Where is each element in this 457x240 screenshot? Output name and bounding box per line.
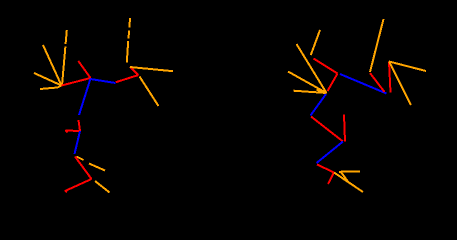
bond red RN-b bbox=[370, 73, 385, 92]
bond N8'-C9' red bbox=[317, 165, 334, 173]
bond C9 orange arm lower-right bbox=[95, 181, 110, 193]
bond H-C1 horizontal L2 bbox=[40, 86, 62, 90]
bond H spoke S1 bbox=[311, 30, 320, 55]
bond C4-O5 red bbox=[130, 67, 139, 75]
bond N8 orange arm (outer) bbox=[89, 164, 105, 171]
bond N2'-C6' blue descending bbox=[311, 94, 327, 116]
bond O5 vertical V2 orange (top) bbox=[128, 18, 131, 28]
bond O7'-N8' blue bbox=[317, 142, 344, 164]
bond C6-O7 red short bbox=[79, 120, 81, 131]
bond H-C1 vertical V1 (upper part) bbox=[66, 30, 67, 44]
bond C3-C4 red bbox=[116, 75, 139, 82]
tip hook of O7 arm bbox=[66, 130, 68, 133]
bond C4 lower arm orange bbox=[140, 77, 159, 107]
bond H-C1 diagonal bbox=[43, 45, 62, 86]
bond O5' right arm orange bbox=[389, 62, 426, 72]
bond C6'-O7' red diagonal bbox=[311, 117, 343, 142]
double stroke detail of F3 bbox=[317, 90, 323, 92]
bond red vertical C4'-O5' bbox=[389, 62, 391, 93]
bond O-C blue long bbox=[340, 74, 387, 94]
bond N2-C3 blue bbox=[91, 79, 116, 83]
bond N8 orange arm (inner) bbox=[77, 157, 84, 161]
bond H-C1 upper-left L1 bbox=[34, 73, 62, 86]
bond H-C1' F2 bbox=[288, 72, 327, 94]
bond O7' red vertical arm bbox=[344, 115, 345, 142]
bond Na-O red upper bbox=[314, 59, 338, 74]
bond O5 vertical V2 orange (middle) bbox=[128, 31, 131, 39]
bond C9' red arm bbox=[328, 173, 334, 185]
bond H-C1 vertical V1 (lower part) bbox=[62, 47, 65, 86]
bond H-C1' long diagonal bbox=[297, 44, 327, 93]
bond O5 vertical V2 orange (bottom) bbox=[127, 41, 128, 63]
bond N2-C6 blue descending bbox=[79, 79, 91, 116]
bond C1-N2 red bbox=[62, 78, 91, 86]
bond C9' diagonal orange arm bbox=[334, 173, 363, 193]
tip hook of C9 red arm bbox=[65, 191, 67, 193]
bond C9 red arm lower-left bbox=[65, 179, 92, 191]
bond N8-C9 red bbox=[75, 157, 92, 180]
bond O5 right arm orange bbox=[130, 67, 173, 71]
bond C9' horizontal orange arm bbox=[339, 170, 360, 173]
bond O-C1' red bbox=[328, 74, 338, 92]
bond O7 left arm red bbox=[66, 130, 81, 133]
bond O-up red bbox=[78, 61, 90, 78]
bond V2' orange vertical bbox=[370, 19, 384, 72]
bond H-C1' F3 horizontal bbox=[294, 91, 327, 93]
bond O7-N8 blue bbox=[75, 131, 81, 154]
double stroke detail of diagonal arm bbox=[341, 172, 350, 184]
bond O5' lower arm orange bbox=[389, 62, 411, 106]
